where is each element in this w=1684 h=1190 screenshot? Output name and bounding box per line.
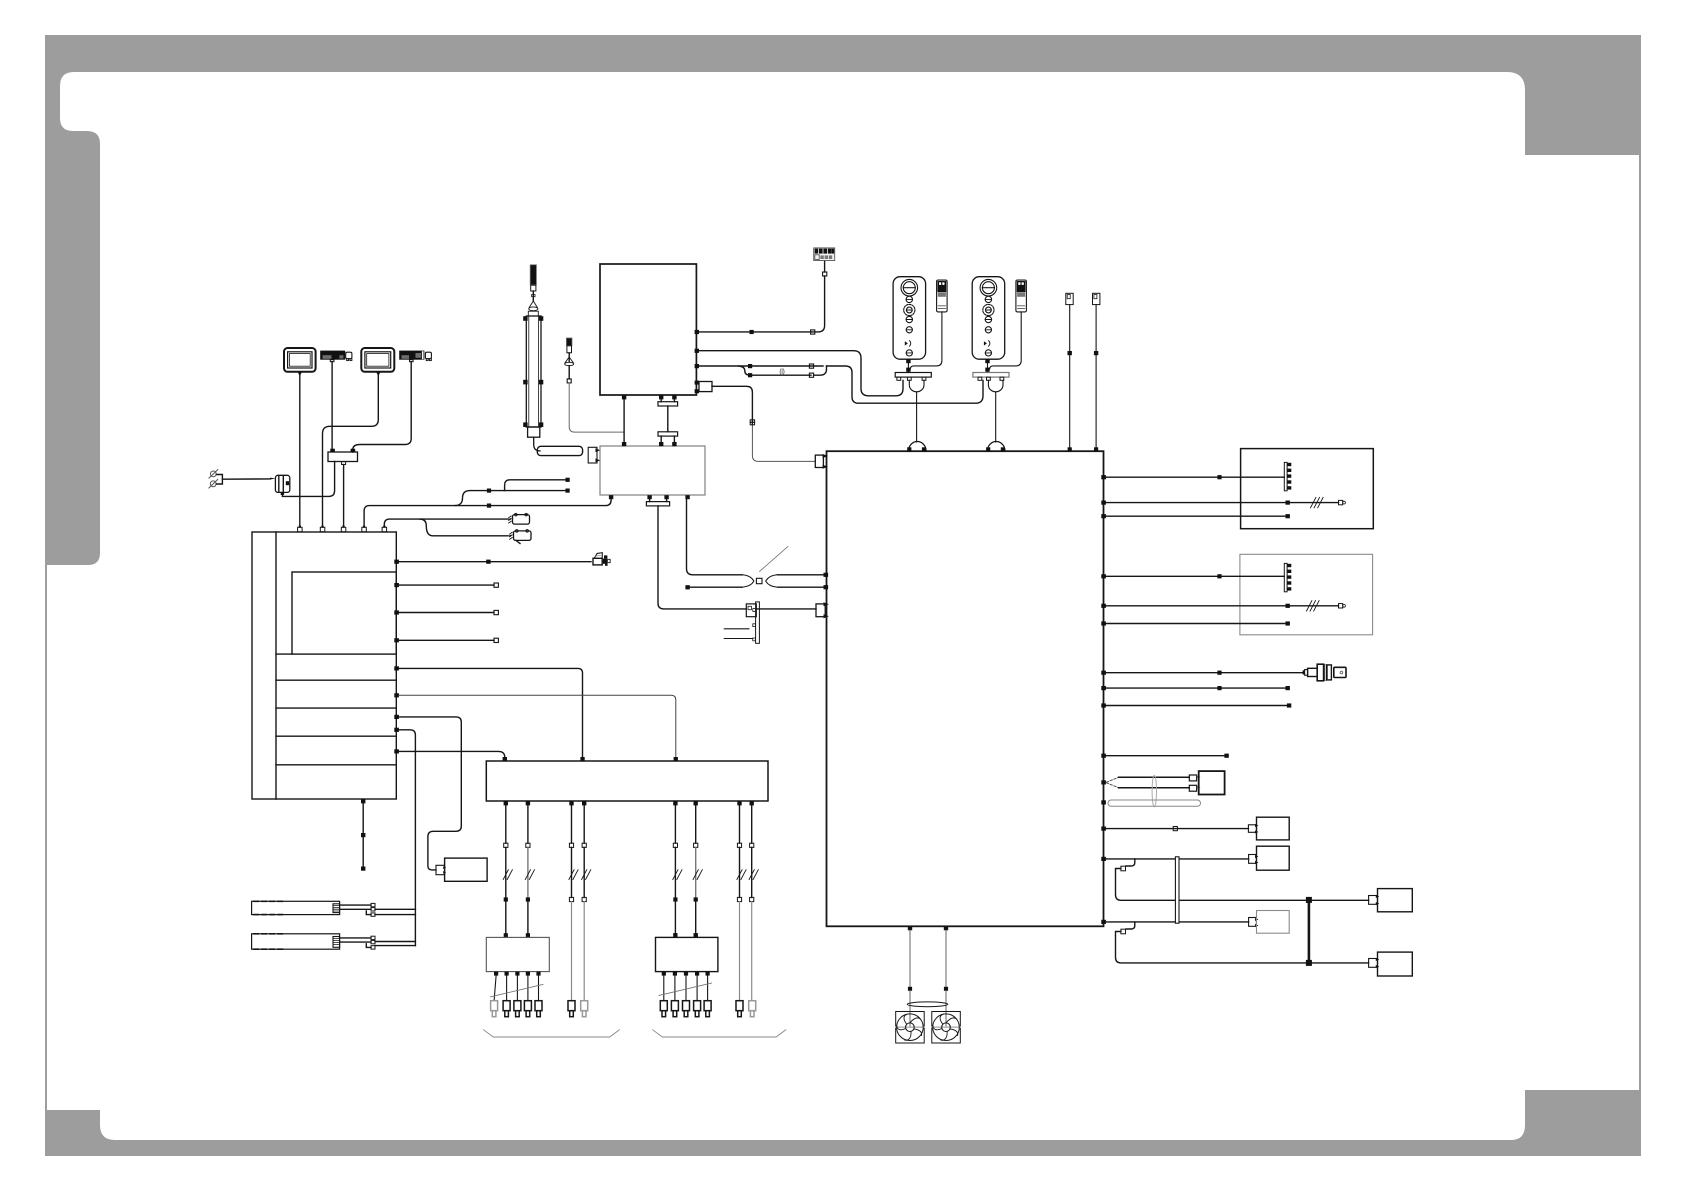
wire: adapter to junction bar underside [282,462,334,497]
wire: board to buffer pin1 [399,751,505,760]
sub board output bracket to ribbon connector [650,499,667,501]
board top pins [298,526,387,532]
wire: aux 3 [1106,755,1225,757]
remote 1 jig bar [895,373,931,443]
AC power plug symbol [209,470,223,488]
logic board top domes [907,442,1005,452]
wire: junction bar to board pin3 [343,465,345,528]
IR sensor board [445,858,488,881]
panel bracket marker 1 [484,1030,620,1037]
service connector drop 1 [1066,293,1073,451]
SMPS right pin 1 + wire to LED display [695,261,827,335]
IR sensor board connector [436,865,446,874]
wire: aux 2 [1106,705,1287,707]
logic board (big right box) [827,451,1104,926]
woofer bar icon 2 [399,351,431,362]
SMPS output connector + B wire to logic board [695,381,816,462]
buffer bottom pins [504,801,754,805]
antenna cable assembly [523,265,600,463]
column 2 [525,805,534,937]
battery pack 1 [910,280,947,369]
main board (left) [252,532,396,799]
wire: panel supply 3 with break [1106,601,1346,611]
junction bar (speaker harness) [328,449,358,465]
remote 2 jig bar [973,373,1009,443]
column 7 [737,805,746,1000]
wire: board to IR sensor board [399,717,461,870]
column 5 [673,805,682,937]
wire: woofer2 down-left to junction bar [353,362,412,452]
speaker grille icon 1 [284,348,316,376]
column 1 [503,805,512,937]
panel bracket marker 2 [653,1030,786,1037]
scan plugs group 2 [660,1001,755,1017]
wire: headphone board B with branch [1106,846,1306,900]
speaker wire assembly 2 [252,934,416,949]
leader line (cable callout) [760,547,788,572]
woofer bar icon 1 [320,351,352,362]
lamp harness [1107,771,1225,807]
wire: ribbon to logic board bracket [756,608,816,610]
right connector box 1 [1241,449,1374,529]
sub power board (center) [600,446,705,495]
lamp return capsule [1108,800,1201,806]
wire: speaker1 to board pin1 [299,375,301,527]
board right edge pins [394,560,399,754]
harness branch to terminals [455,491,566,506]
wire: panel supply 1 with break [1106,497,1346,507]
column 6 [693,805,702,937]
scan plugs group 1 [491,1001,588,1017]
wire: side AV board C with branch [1106,911,1306,963]
column 3 [569,805,578,1000]
wire: board service terminal 2 [399,612,494,614]
right connector box 2 [1240,554,1373,635]
remote control 2 [972,277,1005,373]
wire: antenna to tuner capsule [534,437,540,451]
headphone jack icon [593,553,610,566]
column 8 [749,805,758,1000]
SMPS right pin 3 + twisted pair to remote jig 2 [695,364,983,403]
key controller / power switch [1303,664,1346,681]
wire: panel connector 1 [1106,476,1284,478]
wire: panel supply 4 [1106,623,1286,625]
cooling fan 2 [932,1012,961,1044]
tuner connector bracket [588,447,597,463]
wire: panel connector 2 [1106,575,1284,577]
panel comb 1 [1284,462,1291,490]
page frame: bottom band + bottom-left block + bottom-right block [45,1090,1641,1156]
wire: board to buffer pin3 [399,695,676,757]
column 4 [582,805,591,1000]
AV jack 2 [510,530,531,544]
buffer bar [486,761,768,801]
logic board right edge pins [1101,475,1106,924]
SMPS right pin 2 + wire to remote jig 1 [695,349,903,396]
wire: to speaker out box A [1106,817,1289,840]
board bottom stub cable [361,799,365,871]
wire: board service terminal 1 [399,584,494,586]
logic board input bracket [815,454,828,469]
cable clip symbol [780,369,784,375]
battery pack 2 [990,280,1027,369]
wire: plug to AC adapter [222,478,270,480]
wire: board to headphone jack [399,561,591,563]
wire: to key controller [1106,672,1302,674]
page frame: right thin border [1639,35,1641,1156]
twisted speaker cable to logic board [685,499,828,589]
AC adapter [275,475,289,495]
wire: board to buffer pin2 [399,668,583,757]
SMPS box (top center) [600,264,696,395]
board edge connector strip [724,602,759,643]
service connector drop 2 [1093,293,1100,451]
LED display module [814,248,835,261]
AV jack 1 [509,513,530,524]
jack harness from board pin5 [384,519,508,527]
wire: aux 1 [1106,687,1286,689]
speaker wire assembly 1 [252,901,416,916]
wire: board to speaker bus [399,730,416,946]
Y-scan drive board 1 [486,937,549,1000]
SMPS bottom pins and bracket [622,395,678,446]
speaker grille icon 2 [361,348,394,376]
cooling fan 1 [896,1012,925,1044]
sub board bottom pins [609,495,690,499]
tuner capsule [537,446,582,455]
fan pins on logic board bottom [907,927,948,1028]
panel comb 2 [1284,563,1291,591]
wire: woofer1 to junction bar [331,362,333,449]
heavy tie line to rear boxes [1306,889,1412,976]
inline ribbon connector [746,604,756,617]
IR remote sensor [565,338,624,432]
board edge strip (right) [1175,857,1179,923]
remote control 1 [893,277,926,373]
main harness wire to board pin4 [364,499,611,527]
wire: panel supply 2 [1106,515,1286,517]
wire: speaker2 down-left to board pin2 [323,375,379,527]
wire: sensor down to sub power board [569,383,624,432]
Y-scan drive board 2 [656,933,718,1001]
wire: board service terminal 3 [399,639,494,641]
